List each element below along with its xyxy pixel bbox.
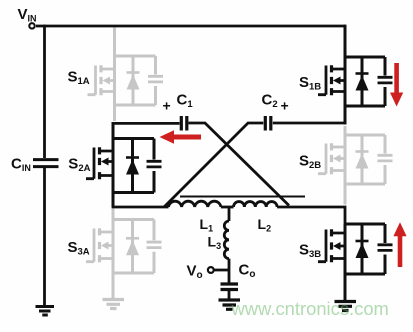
- wire node P1: S2A drain to C1: [113, 122, 180, 125]
- ground (S3B source): [335, 302, 357, 311]
- wire S3B source to ground: [344, 274, 347, 300]
- inductor L2: [233, 202, 277, 207]
- wire C1 to crossing diagonal A: [189, 123, 290, 206]
- wire top rail VIN: [36, 25, 345, 28]
- wire S1B source to C2 node: [344, 106, 347, 125]
- coupled inductor core line: [180, 196, 305, 198]
- wire S1A source to S2A drain (gray): [113, 105, 116, 121]
- transistor S3B (MOSFET with body diode and output capacitor): [318, 224, 393, 274]
- ground (S3A source, gray): [103, 300, 125, 309]
- wire center tap down to L3: [228, 207, 231, 221]
- wire left input rail: [43, 25, 46, 306]
- current arrow IB1 (red, downward through S1B): [390, 63, 403, 107]
- wire C2 to S1B source node: [273, 122, 347, 125]
- transistor S3A (MOSFET with body diode and output capacitor): [86, 220, 162, 274]
- current arrow IA (red, pointing left into S2A): [160, 130, 202, 143]
- wire crossing diagonal B (C2 to node A side): [164, 123, 263, 207]
- wire L2 to node B / S3B drain: [277, 206, 345, 224]
- capacitor C1: [181, 116, 187, 131]
- svg-text:+: +: [163, 98, 171, 114]
- wire S2A source to node A: [112, 193, 115, 208]
- wire node A rail (S2A source to L1): [112, 206, 169, 209]
- transistor S1A (MOSFET with body diode and output capacitor): [88, 56, 164, 105]
- svg-text:www.cntronics.com: www.cntronics.com: [231, 298, 389, 319]
- wire S1B drain from top rail: [344, 25, 347, 57]
- wire S1A drain (gray, from top rail): [113, 28, 116, 57]
- node Vo output terminal: [208, 267, 214, 273]
- wire L3 to output node: [214, 259, 229, 283]
- transistor S2A (MOSFET with body diode and output capacitor): [86, 139, 162, 193]
- ground (output capacitor): [219, 300, 241, 309]
- transistor S2B (MOSFET with body diode and output capacitor): [318, 135, 393, 184]
- inductor L3: [224, 221, 229, 259]
- wire S3A source to ground (gray): [112, 273, 115, 299]
- wire S2A drain vertical: [112, 122, 115, 139]
- wire Co to ground: [228, 291, 231, 299]
- capacitor CIN: [33, 160, 59, 167]
- wire S2B drain (gray): [344, 126, 347, 135]
- capacitor Co: [221, 284, 239, 290]
- wire S3A drain from node A (gray): [112, 209, 115, 220]
- ground (input rail): [36, 307, 55, 316]
- transistor S1B (MOSFET with body diode and output capacitor): [318, 57, 393, 106]
- svg-text:+: +: [281, 98, 289, 114]
- node VIN terminal: [29, 23, 34, 28]
- wire S2B source to node B (gray): [344, 184, 347, 205]
- capacitor C2: [265, 116, 271, 131]
- current arrow IB3 (red, upward through S3B): [393, 222, 406, 267]
- inductor L1: [169, 201, 221, 207]
- wire L1 to L2 with center tap junction: [221, 206, 234, 209]
